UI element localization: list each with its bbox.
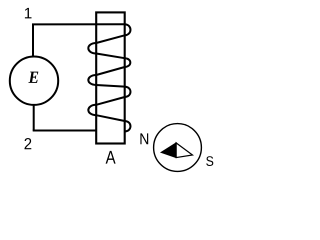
- compass circle: [154, 124, 202, 172]
- core A rectangle: [96, 12, 125, 143]
- compass needle black (N) half: [161, 143, 176, 158]
- wire: terminal 2 horizontal to coil (ends at core edge): [33, 130, 96, 132]
- coil winding W1: [88, 24, 130, 131]
- wire: source E down to terminal 2: [33, 105, 35, 131]
- wire: terminal 1 horizontal to coil (crosses core front): [32, 23, 125, 25]
- source E circle: [10, 56, 58, 104]
- label N: [140, 133, 148, 144]
- wire: terminal 1 down to source E: [32, 24, 34, 56]
- terminal label 1: [25, 8, 32, 19]
- terminal label 2: [25, 138, 32, 149]
- compass needle white (S) half: [176, 143, 192, 158]
- label A: [106, 151, 116, 164]
- label S: [206, 156, 213, 166]
- label E: [28, 72, 38, 83]
